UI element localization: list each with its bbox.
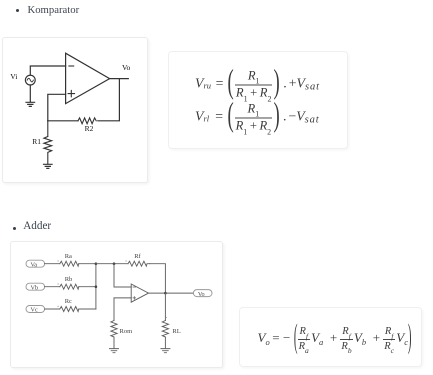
- svg-text:R2: R2: [85, 124, 94, 133]
- wire Rc to bus: [78, 308, 95, 310]
- list item text: Adder: [23, 221, 51, 232]
- wire feedback to plus node: [48, 120, 78, 122]
- ground under Rom: [109, 348, 118, 352]
- terminal Va: [26, 260, 45, 267]
- equation Vrl: [195, 99, 320, 134]
- wire plus input: [48, 94, 66, 121]
- svg-text:Vb: Vb: [30, 284, 38, 291]
- svg-text:Rc: Rc: [64, 298, 71, 305]
- svg-text:RL: RL: [172, 328, 180, 335]
- adder schematic SVG: [10, 241, 224, 369]
- op-amp U2 triangle: [131, 284, 148, 302]
- wire inverting input branch: [114, 263, 131, 286]
- source V1 (sine source circle): [25, 75, 35, 85]
- ground under RL: [161, 348, 170, 352]
- resistor Rb: [59, 284, 78, 289]
- svg-text:Vo: Vo: [198, 290, 205, 297]
- comparator figure box: [2, 37, 148, 183]
- op-amp plus sign: [68, 90, 74, 96]
- op-amp U1 triangle: [66, 53, 110, 103]
- wire Vc to Rc: [44, 308, 59, 310]
- resistor R2 (horizontal zigzag): [78, 118, 96, 124]
- adder figure box: [10, 241, 224, 369]
- svg-text:Va: Va: [30, 261, 37, 268]
- list item text: Komparator: [28, 5, 80, 16]
- bullet: Adder list marker: [13, 227, 16, 230]
- equation Vru: [195, 66, 320, 101]
- terminal Vb: [26, 283, 45, 290]
- svg-text:Ra: Ra: [64, 252, 71, 259]
- op-amp minus sign: [69, 65, 74, 67]
- wire output down to feedback row: [98, 79, 120, 121]
- junction dot output/feedback: [164, 291, 167, 294]
- terminal Vo: [193, 289, 212, 296]
- sine symbol inside source: [27, 78, 33, 82]
- resistor Rf: [128, 261, 150, 266]
- svg-text:Vo: Vo: [122, 63, 131, 72]
- wire Rf to output column: [149, 263, 165, 292]
- equation box 1 (comparator thresholds): [168, 51, 348, 149]
- junction dot inverting branch: [112, 262, 115, 265]
- svg-text:Vc: Vc: [30, 306, 37, 313]
- svg-text:Rb: Rb: [64, 275, 72, 282]
- resistor Rom (vertical zigzag): [111, 320, 117, 347]
- wire output column down to RL: [164, 293, 166, 320]
- wire source bottom to ground: [29, 85, 31, 102]
- pin tick marks: [57, 260, 166, 317]
- wire bus to Rf branch: [96, 262, 128, 264]
- junction dot bus/Ra: [94, 262, 97, 265]
- op-amp minus sign: [133, 286, 136, 288]
- terminal Vc: [26, 305, 45, 312]
- wire source top to op-amp minus input: [30, 66, 65, 75]
- resistor Rc: [59, 306, 78, 311]
- svg-text:Rf: Rf: [134, 252, 141, 259]
- equation box 2 (adder output): [239, 307, 422, 367]
- wire noninverting input to Rom: [114, 297, 131, 320]
- wire op-amp output: [148, 292, 193, 294]
- equation Vo adder: [258, 321, 412, 355]
- resistor RL (vertical zigzag): [162, 320, 168, 347]
- wire Va to Ra: [44, 262, 59, 264]
- ground under source: [26, 102, 35, 106]
- resistor R1 (vertical zigzag): [44, 121, 52, 164]
- comparator schematic SVG: [2, 37, 148, 183]
- wire Rb to bus: [78, 285, 95, 287]
- summing bus vertical wire: [95, 263, 97, 308]
- svg-text:R1: R1: [32, 137, 41, 146]
- ground under R1: [44, 164, 53, 168]
- wire output: [110, 78, 129, 80]
- wire Vb to Rb: [44, 285, 59, 287]
- svg-text:Vi: Vi: [10, 72, 17, 81]
- op-amp plus sign: [133, 296, 136, 299]
- junction dot bus/Rb: [94, 285, 97, 288]
- wire Ra to bus: [78, 262, 95, 264]
- resistor Ra: [59, 261, 78, 266]
- bullet: Komparator list marker: [16, 9, 19, 12]
- svg-text:Rom: Rom: [119, 328, 132, 335]
